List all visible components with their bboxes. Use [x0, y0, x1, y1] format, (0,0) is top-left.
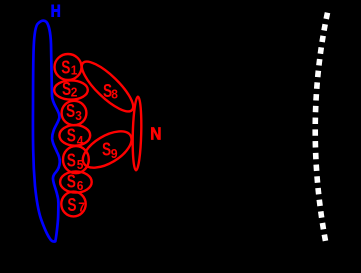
label S1	[61, 57, 77, 77]
circle S5	[63, 146, 89, 173]
label S6	[67, 171, 84, 192]
ellipse S2	[54, 80, 88, 99]
label S5	[67, 151, 84, 172]
svg-text:3: 3	[75, 109, 82, 123]
ellipse S8 (tilted)	[75, 55, 139, 118]
label S4	[67, 126, 84, 148]
svg-text:2: 2	[71, 85, 78, 99]
circle S7	[61, 192, 85, 217]
svg-text:7: 7	[78, 200, 85, 214]
ellipse S4	[59, 125, 90, 146]
circle S1	[55, 54, 82, 80]
svg-text:6: 6	[77, 179, 84, 193]
svg-text:S: S	[67, 126, 76, 146]
svg-text:N: N	[150, 124, 161, 144]
label S7	[67, 195, 85, 215]
label S8	[103, 81, 118, 101]
svg-text:H: H	[51, 2, 61, 21]
svg-text:S: S	[66, 101, 75, 121]
label S9	[102, 140, 118, 162]
svg-text:S: S	[67, 195, 76, 215]
circle S3	[62, 101, 87, 125]
ellipse S9 (tilted)	[77, 124, 138, 175]
ellipse S6	[60, 171, 92, 192]
label S3	[66, 101, 82, 123]
label S2	[62, 79, 78, 99]
set H outline (blue closed curve)	[33, 21, 60, 242]
ellipse N (narrow vertical)	[132, 97, 142, 171]
dashed white separator curve	[315, 13, 327, 241]
svg-text:1: 1	[71, 63, 78, 77]
svg-text:S: S	[61, 57, 70, 77]
svg-text:S: S	[67, 171, 76, 191]
svg-text:8: 8	[111, 87, 118, 101]
svg-text:9: 9	[111, 147, 118, 161]
svg-text:S: S	[67, 151, 76, 171]
